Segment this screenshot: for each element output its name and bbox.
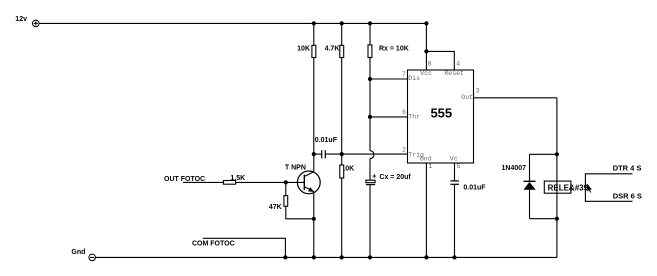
junction Cx / ground rail bbox=[368, 255, 372, 259]
wire R5 to emitter bbox=[286, 206, 314, 219]
junction emitter / ground rail bbox=[312, 255, 316, 259]
svg-text:1: 1 bbox=[428, 163, 432, 170]
svg-text:4.7K: 4.7K bbox=[325, 45, 340, 52]
svg-text:12v: 12v bbox=[15, 16, 27, 23]
junction pin 7 / Rx bbox=[368, 77, 372, 81]
svg-text:Vcc: Vcc bbox=[420, 70, 432, 77]
wire emitter to ground rail bbox=[313, 192, 315, 258]
junction R4 / ground rail bbox=[340, 255, 344, 259]
wire pin 8 stub bbox=[425, 51, 427, 70]
svg-text:2: 2 bbox=[402, 146, 406, 153]
svg-text:Dis: Dis bbox=[408, 75, 420, 82]
svg-text:47K: 47K bbox=[269, 204, 282, 211]
svg-text:10K: 10K bbox=[297, 45, 310, 52]
svg-text:Gnd: Gnd bbox=[71, 249, 85, 256]
junction C3 / ground rail bbox=[452, 255, 456, 259]
wire out corner down to relay bbox=[556, 98, 558, 155]
svg-text:3: 3 bbox=[476, 88, 480, 95]
svg-text:Thr: Thr bbox=[408, 114, 420, 121]
wire R3 to base bbox=[236, 181, 305, 183]
capacitor Cx top plate bbox=[366, 180, 375, 183]
svg-text:DSR 6 S: DSR 6 S bbox=[613, 192, 642, 201]
wire pin 3 out bbox=[474, 97, 557, 99]
wire R2 to trig node bbox=[341, 58, 343, 166]
wire C1 right bbox=[326, 153, 342, 155]
wire relay top to diode bbox=[530, 153, 557, 155]
wire pin 5 to C3 bbox=[454, 163, 456, 181]
wire R1 to collector bbox=[313, 58, 315, 172]
svg-text:Gnd: Gnd bbox=[420, 156, 432, 163]
svg-text:1,5K: 1,5K bbox=[230, 175, 245, 182]
resistor R3 1,5K bbox=[223, 181, 235, 185]
wire C1 left bbox=[314, 153, 321, 155]
svg-text:Cx = 20uf: Cx = 20uf bbox=[379, 174, 411, 181]
mouse cursor mark bbox=[587, 183, 592, 192]
wire rail to R2 bbox=[341, 23, 343, 45]
junction emitter / R5 bbox=[312, 217, 316, 221]
wire pin7 node to pin6 node bbox=[369, 79, 371, 117]
wire com fotoc bbox=[203, 238, 286, 257]
junction collector / C1 bbox=[312, 152, 316, 156]
junction top rail / R2 bbox=[340, 21, 344, 25]
wire pin 2 trig bbox=[342, 153, 408, 155]
wire pin6 node to hop bbox=[369, 117, 371, 151]
wire relay coil through box bbox=[556, 181, 558, 193]
wire diode anode up bbox=[529, 154, 531, 181]
connector bracket to DTR/DSR bbox=[585, 174, 632, 202]
svg-text:0.01uF: 0.01uF bbox=[463, 185, 486, 192]
wire rail to Rx bbox=[369, 23, 371, 45]
resistor R2 4.7K bbox=[340, 45, 344, 57]
resistor R1 10K bbox=[312, 45, 316, 57]
svg-text:Vc: Vc bbox=[450, 156, 458, 163]
wire pin 1 to ground rail bbox=[425, 163, 427, 257]
svg-text:T NPN: T NPN bbox=[285, 165, 306, 172]
wire +12V top rail bbox=[39, 22, 426, 24]
svg-text:Rx = 10K: Rx = 10K bbox=[379, 45, 409, 52]
wire diode cathode down bbox=[529, 190, 531, 219]
junction top rail / R1 bbox=[312, 21, 316, 25]
wire diode bottom to relay bbox=[530, 218, 557, 220]
svg-text:6: 6 bbox=[402, 109, 406, 116]
wire pin 7 bbox=[370, 78, 408, 80]
svg-text:7: 7 bbox=[402, 71, 406, 78]
junction com fotoc / ground rail bbox=[283, 255, 287, 259]
relay K1 body bbox=[544, 181, 571, 193]
svg-text:Reset: Reset bbox=[444, 70, 464, 77]
svg-text:DTR 4 S: DTR 4 S bbox=[613, 163, 642, 172]
transistor Q1 T NPN bbox=[297, 171, 320, 194]
junction out / relay top bbox=[555, 152, 559, 156]
svg-text:+: + bbox=[372, 173, 376, 180]
wire pin 4 bridge bbox=[426, 51, 454, 70]
svg-text:5: 5 bbox=[457, 163, 461, 170]
svg-text:COM FOTOC: COM FOTOC bbox=[192, 241, 235, 248]
junction base / R5 bbox=[284, 180, 288, 184]
wire ground rail bbox=[96, 256, 557, 258]
wire out fotoc bbox=[183, 181, 223, 183]
terminal Gnd bbox=[89, 254, 96, 261]
junction pin 6 / Rx bbox=[368, 115, 372, 119]
wire pin 6 bbox=[370, 116, 408, 118]
wire hop over trig wire bbox=[370, 151, 374, 159]
svg-text:RELE&#39: RELE&#39 bbox=[548, 183, 589, 192]
wire R4 to ground rail bbox=[341, 178, 343, 257]
junction trig node bbox=[340, 152, 344, 156]
wire rail to R1 bbox=[313, 23, 315, 45]
svg-text:OUT FOTOC: OUT FOTOC bbox=[164, 176, 205, 183]
resistor Rx bbox=[368, 45, 372, 58]
wire Rx to pin7 node bbox=[369, 58, 371, 80]
svg-text:8: 8 bbox=[428, 60, 432, 67]
svg-text:4: 4 bbox=[456, 60, 460, 67]
terminal 12v bbox=[33, 20, 40, 27]
wire relay to ground rail bbox=[556, 193, 558, 257]
wire rail to Vcc node bbox=[425, 23, 427, 51]
wire base to R5 bbox=[285, 182, 287, 195]
diode D1 1N4007 bbox=[523, 181, 535, 190]
svg-text:0.01uF: 0.01uF bbox=[315, 137, 338, 144]
capacitor C3 0.01uF plates bbox=[450, 181, 459, 184]
wire Cx to ground rail bbox=[369, 185, 371, 258]
capacitor C1 0.01uF plates bbox=[322, 150, 326, 158]
svg-text:1N4007: 1N4007 bbox=[502, 165, 527, 172]
junction pin1 / ground rail bbox=[424, 255, 428, 259]
resistor R5 47K bbox=[284, 196, 288, 207]
svg-text:555: 555 bbox=[430, 106, 452, 121]
junction Vcc/Reset split bbox=[424, 49, 428, 53]
capacitor Cx bottom plate bbox=[366, 184, 375, 186]
IC U1 555 body bbox=[408, 70, 474, 163]
junction top rail / Rx bbox=[368, 21, 372, 25]
wire C3 to ground rail bbox=[454, 185, 456, 258]
svg-text:Out: Out bbox=[461, 94, 473, 101]
wire out node to relay coil bbox=[556, 154, 558, 181]
resistor R4 10K bbox=[340, 165, 344, 178]
junction relay bottom / diode bbox=[555, 217, 559, 221]
wire hop to Cx bbox=[369, 159, 371, 181]
junction top rail corner bbox=[424, 21, 428, 25]
